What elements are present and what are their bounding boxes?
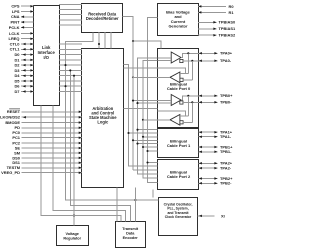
svg-text:TPBIAS0: TPBIAS0 [219, 20, 236, 25]
block U10 Transmit Data Encoder [116, 222, 146, 248]
wire bus v5 port2 stub [148, 162, 158, 164]
wire decoder-arb c [110, 32, 112, 49]
svg-text:TPB1-: TPB1- [220, 149, 232, 154]
svg-text:LKON/DS2: LKON/DS2 [0, 115, 21, 120]
block U5 Bilingual Cable Port 0 [158, 49, 199, 128]
wire vreg tap bus [73, 76, 75, 226]
pin TPA1- [199, 136, 218, 138]
wire link-arb D2 [59, 64, 82, 66]
wire decoder-port0 [123, 17, 162, 49]
wire arb-encoder a [134, 188, 136, 222]
pin TPB2- [199, 182, 218, 184]
wire bus v4 [143, 61, 158, 178]
svg-text:Generator: Generator [168, 23, 188, 28]
wire bus v3 port1 stub b [138, 143, 158, 145]
svg-text:PCLK: PCLK [9, 25, 20, 30]
pin TPB2+ [199, 178, 218, 180]
svg-text:TPBIAS2: TPBIAS2 [219, 33, 236, 38]
wire bus v4 port1 stub a [143, 136, 158, 138]
svg-text:R0: R0 [229, 4, 235, 9]
wire bus v3 port0 stub [138, 102, 159, 104]
block U9 Voltage Regulator [57, 226, 89, 246]
svg-text:D4: D4 [14, 73, 20, 78]
wire link-decoder 3 [59, 19, 82, 21]
svg-text:CPS: CPS [11, 4, 19, 9]
svg-text:PC1: PC1 [12, 135, 20, 140]
svg-text:XI: XI [221, 213, 225, 218]
wire bus v2 port1 stub [133, 139, 158, 141]
pin TPB0+ [199, 95, 218, 97]
svg-text:Transmit: Transmit [122, 227, 139, 231]
svg-text:VREG_PD: VREG_PD [1, 170, 20, 175]
wire bus v1 port1 stub [129, 132, 158, 134]
svg-text:LREQ: LREQ [9, 36, 20, 41]
svg-text:RESET: RESET [7, 109, 21, 114]
wire link-encoder b [53, 106, 126, 222]
wire crystal-port2 [152, 190, 154, 198]
svg-text:R1: R1 [229, 10, 235, 15]
wire link-arb D3 [59, 69, 82, 71]
wire link-encoder a [41, 106, 121, 222]
wire bus v1 rx0 junction [132, 76, 134, 78]
wire bus v2 rx bus [132, 41, 134, 170]
svg-text:I/O: I/O [43, 55, 49, 60]
svg-text:Cable Port 1: Cable Port 1 [167, 143, 191, 148]
pin TPB1+ [199, 146, 218, 148]
port0 TPB driver A3 [171, 95, 181, 106]
svg-text:TPA0+: TPA0+ [220, 51, 233, 56]
svg-text:Clock Generator: Clock Generator [165, 215, 192, 219]
pin TPB0- [199, 101, 218, 103]
pin TPA1+ [199, 131, 218, 133]
pin TPA0- [199, 60, 218, 62]
wire arb stub mid [124, 107, 158, 109]
svg-text:TPB2-: TPB2- [220, 181, 232, 186]
wire bus crossline [124, 67, 158, 69]
wire link-arb D6 [59, 85, 82, 87]
svg-text:TPA1-: TPA1- [220, 134, 232, 139]
block U7 Bilingual Cable Port 2 [158, 160, 199, 190]
wire link-decoder 0 [59, 3, 82, 5]
wire link-arb D4 [59, 75, 82, 77]
svg-text:TPA2-: TPA2- [220, 166, 232, 171]
pin TPA0+ [199, 52, 218, 54]
wire data tap bus [70, 70, 130, 221]
wire link-arb CTL0 [59, 43, 82, 45]
block U8 Crystal Oscillator PLL System and Transmit Clock Generator [159, 198, 198, 236]
pin TPB1- [199, 151, 218, 153]
svg-text:Cable Port 0: Cable Port 0 [167, 86, 191, 91]
svg-text:D2: D2 [14, 63, 20, 68]
pin XI [198, 213, 225, 218]
pin TPA2+ [199, 162, 218, 164]
port0 TPB receiver A4 [170, 115, 180, 126]
pin TPBIAS2 [198, 34, 217, 36]
block U4 Arbitration and Control State Machine Logic [82, 49, 124, 188]
block U2 Received Data Decoder/Retimer [82, 4, 123, 33]
svg-text:Encoder: Encoder [123, 236, 139, 240]
wire bus v5 port1 stub [148, 150, 158, 152]
svg-text:BMODE: BMODE [5, 120, 20, 125]
svg-text:Decoder/Retimer: Decoder/Retimer [86, 16, 119, 21]
svg-text:Voltage: Voltage [65, 232, 78, 236]
svg-text:D7: D7 [14, 89, 20, 94]
svg-text:D0: D0 [14, 52, 20, 57]
svg-text:Regulator: Regulator [63, 237, 81, 241]
wire link-arb D1 [59, 59, 82, 61]
pin TPBIAS1 [198, 28, 217, 30]
svg-text:CTL1: CTL1 [10, 47, 21, 52]
svg-text:Cable Port 2: Cable Port 2 [167, 174, 191, 179]
svg-text:TPBIAS1: TPBIAS1 [219, 26, 236, 31]
wire decoder-arb b [104, 32, 106, 49]
wire link-arb D0 [59, 54, 82, 56]
svg-text:CTL0: CTL0 [10, 41, 21, 46]
wire link-arb D5 [59, 80, 82, 82]
wire bus v2 port0 stub [133, 100, 158, 102]
wire bus v1 [124, 65, 158, 167]
port0 TPA driver A1 [171, 52, 181, 63]
svg-text:TPB0-: TPB0- [220, 100, 232, 105]
svg-text:TPA0-: TPA0- [220, 58, 232, 63]
svg-text:D3: D3 [14, 68, 20, 73]
svg-text:Data: Data [126, 231, 135, 235]
svg-text:D6: D6 [14, 84, 20, 89]
svg-text:LPS: LPS [12, 9, 20, 14]
wire bus v4 port1 stub b [143, 146, 158, 148]
wire arb-encoder b [116, 188, 118, 222]
port0 TPA receiver A2 [170, 72, 180, 83]
pin TPA2- [199, 167, 218, 169]
svg-text:LCLK: LCLK [9, 31, 20, 36]
wire bus v3 port1 stub a [138, 129, 158, 131]
pin R0 [198, 5, 226, 7]
wire link-decoder 4 [59, 24, 82, 26]
wire link-decoder 2 [59, 14, 82, 16]
svg-text:TPB0+: TPB0+ [220, 93, 233, 98]
block U1 Link Interface I/O [34, 6, 60, 106]
wire link-arb D7 [59, 91, 82, 93]
wire link-decoder 1 [59, 9, 82, 11]
block U3 Bias Voltage and Current Generator [158, 4, 199, 36]
wire bus v3 [138, 58, 158, 174]
pin R1 [198, 11, 226, 13]
wire bus v4 rx2 junction [142, 119, 144, 121]
svg-text:CNA: CNA [11, 14, 20, 19]
block U6 Bilingual Cable Port 1 [158, 129, 199, 158]
wire decoder-arb a [98, 32, 100, 49]
wire bias-distribution [148, 18, 158, 183]
wire decoder return bus [66, 33, 159, 201]
svg-text:PINT: PINT [11, 20, 21, 25]
svg-text:Logic: Logic [97, 119, 109, 124]
pin TPBIAS0 [198, 21, 217, 23]
wire link-arb CTL1 [59, 48, 82, 50]
